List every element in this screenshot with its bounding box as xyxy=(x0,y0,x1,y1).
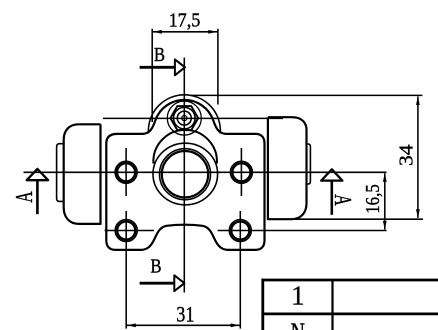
lower-left hole vertical crosshair + 31 extension xyxy=(125,211,127,329)
title block top border xyxy=(261,279,438,282)
svg-text:31: 31 xyxy=(176,301,194,326)
dim 31 dimension line xyxy=(126,324,240,326)
view arrow B bottom head xyxy=(174,275,184,291)
svg-text:16,5: 16,5 xyxy=(363,184,384,214)
bleeder screw circles xyxy=(174,107,196,129)
dim 34 dimension line xyxy=(417,96,419,217)
dim 16,5 bottom arrow xyxy=(383,221,387,230)
dim 17,5 right arrow xyxy=(208,30,217,34)
title block row divider xyxy=(261,312,438,315)
inner boss arc xyxy=(148,95,220,134)
main horizontal centerline xyxy=(24,171,387,173)
svg-text:A: A xyxy=(329,194,356,206)
title block column divider xyxy=(331,280,333,330)
lower-left mounting hole xyxy=(117,221,135,239)
view arrow A left shaft xyxy=(36,181,39,214)
lower-right hole horizontal crosshair + 16,5 bottom extension xyxy=(218,230,387,232)
dim 34 top arrow xyxy=(416,96,420,105)
upper-left mounting hole xyxy=(117,163,135,181)
dim 34 top extension line xyxy=(190,94,422,96)
bleeder screw outer circle xyxy=(167,101,201,135)
dim 31 right arrow xyxy=(231,323,240,327)
svg-text:A: A xyxy=(11,191,38,203)
lower-right mounting hole xyxy=(231,221,249,239)
dim 31 left arrow xyxy=(127,323,136,327)
dim 34 bottom extension line xyxy=(291,218,423,220)
svg-text:B: B xyxy=(151,255,162,277)
svg-text:N: N xyxy=(290,318,305,330)
vertical centerline xyxy=(183,58,185,293)
view arrow B top shaft xyxy=(140,66,176,69)
right boot lip xyxy=(307,144,311,184)
svg-text:17,5: 17,5 xyxy=(169,11,201,32)
right boot cap xyxy=(268,117,307,219)
upper-left hole vertical crosshair xyxy=(125,148,127,196)
cylinder bore rim xyxy=(160,149,211,200)
dim 16,5 top arrow xyxy=(383,173,387,182)
cylinder bore xyxy=(162,151,208,197)
upper-right mounting hole xyxy=(232,163,250,181)
dim 34 bottom arrow xyxy=(416,209,420,218)
bleeder horizontal centerline xyxy=(103,117,283,119)
dim 17,5 right extension line xyxy=(217,29,219,105)
dim 17,5 dimension line xyxy=(152,31,218,33)
dim 17,5 left extension line xyxy=(151,29,153,122)
dim 17,5 left arrow xyxy=(153,30,162,34)
view arrow A left head xyxy=(27,169,48,180)
title block left border xyxy=(261,279,264,330)
svg-text:1: 1 xyxy=(291,280,305,310)
left boot lip xyxy=(57,144,64,202)
view arrow A right shaft xyxy=(330,181,333,215)
bleeder tower dome arc xyxy=(153,130,217,164)
view arrow A right head xyxy=(321,169,342,180)
cylinder bore outer boss circle xyxy=(153,143,218,205)
lower-right hole vertical crosshair + 31 extension xyxy=(239,211,241,329)
view arrow B top head xyxy=(175,59,185,75)
svg-text:B: B xyxy=(154,44,165,66)
lower-left hole horizontal crosshair xyxy=(105,230,154,232)
mounting flange plate with bleeder boss and bottom notch xyxy=(106,100,264,250)
view arrow B bottom shaft xyxy=(140,282,175,285)
bleeder screw hexagon xyxy=(170,106,198,130)
left boot cap xyxy=(64,124,101,224)
upper-right hole vertical crosshair xyxy=(240,148,242,196)
svg-text:34: 34 xyxy=(397,144,418,166)
dim 16,5 dimension line xyxy=(384,173,386,229)
